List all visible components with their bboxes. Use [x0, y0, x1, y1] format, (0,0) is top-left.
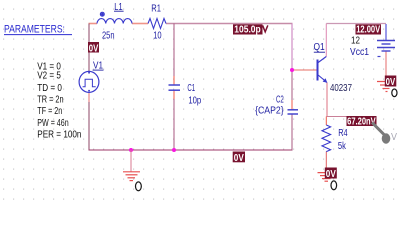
svg-text:TF = 2n: TF = 2n	[37, 105, 62, 116]
label V1	[93, 60, 104, 71]
wire emitter vertical	[326, 83, 328, 117]
svg-text:10p: 10p	[188, 95, 201, 106]
svg-text:TD = 0: TD = 0	[37, 82, 62, 93]
label 0 (R4 ground)	[331, 181, 337, 190]
pin R4 top	[325, 117, 327, 126]
wire collector vertical	[325, 24, 327, 57]
svg-text:40237: 40237	[330, 82, 352, 93]
ground 0 (right under battery)	[377, 82, 395, 92]
svg-text:{CAP2}: {CAP2}	[255, 105, 284, 116]
label Q1	[314, 41, 326, 52]
bias badge 105.0pV	[233, 24, 268, 35]
pin C2 top	[291, 100, 293, 110]
svg-text:TR = 2n: TR = 2n	[37, 93, 63, 104]
voltage probe marker	[372, 123, 398, 144]
svg-text:12.00V: 12.00V	[356, 24, 380, 35]
svg-text:C2: C2	[276, 94, 284, 105]
wire probe branch	[326, 116, 375, 118]
svg-text:R1: R1	[151, 2, 161, 13]
label 0 (center ground)	[136, 182, 142, 191]
wire bottom rail	[89, 149, 293, 151]
ground 0 (center)	[123, 150, 140, 181]
pin battery top	[385, 24, 387, 41]
wire Q1 base	[292, 69, 317, 71]
junction node at ground rail	[129, 148, 133, 152]
svg-text:25n: 25n	[102, 29, 115, 40]
wire top rail left (corner to L1)	[89, 23, 98, 25]
pin C1 top	[173, 76, 175, 85]
junction node at Q1 base	[290, 68, 294, 72]
svg-text:PW = 46n: PW = 46n	[37, 117, 68, 129]
svg-text:12: 12	[351, 35, 360, 46]
battery Vcc1	[377, 41, 395, 57]
wire L1 to R1	[132, 23, 148, 25]
svg-text:Q1: Q1	[314, 41, 325, 52]
svg-text:0V: 0V	[234, 152, 245, 163]
svg-text:5k: 5k	[338, 140, 346, 151]
resistor R1	[148, 19, 166, 29]
capacitor C1	[169, 85, 181, 90]
wire top rail right (Vcc)	[326, 23, 386, 25]
bias badge 0V (bottom rail)	[233, 152, 245, 163]
wire C1 branch upper	[173, 24, 175, 77]
voltage source V1	[79, 71, 99, 92]
svg-text:0V: 0V	[89, 42, 99, 53]
ground 0 (under R4)	[318, 173, 336, 182]
bias badge 0V (battery ground)	[385, 76, 397, 88]
label 0 (right ground)	[392, 89, 397, 97]
wire left vertical	[88, 24, 90, 72]
pin battery bottom / wire to ground	[385, 51, 387, 81]
svg-text:R4: R4	[338, 127, 347, 138]
bias badge 0V (V1 top)	[88, 42, 99, 54]
pin V1 bottom	[88, 92, 90, 102]
PARAMETERS: title	[4, 24, 72, 36]
pin R4 bottom / wire to ground	[325, 152, 327, 171]
svg-text:0V: 0V	[326, 168, 337, 179]
capacitor C2	[288, 110, 299, 114]
pin C2 bottom	[291, 114, 293, 150]
svg-text:67.20nV: 67.20nV	[347, 115, 376, 126]
parameter list	[37, 61, 81, 140]
svg-text:10: 10	[153, 29, 161, 40]
label L1	[114, 1, 124, 12]
svg-text:L1: L1	[114, 1, 122, 12]
svg-text:C1: C1	[187, 82, 195, 93]
junction node at C1 bottom	[172, 148, 176, 152]
bias badge 0V (R4 ground)	[325, 168, 337, 179]
svg-text:V1: V1	[93, 60, 103, 71]
svg-text:0V: 0V	[386, 76, 396, 87]
svg-text:V2 = 5: V2 = 5	[37, 70, 61, 81]
bias badge 67.20nV	[347, 115, 377, 126]
pin C1 bottom	[173, 90, 175, 99]
resistor R4	[322, 125, 331, 152]
inductor L1	[97, 12, 132, 23]
wire C1 branch lower	[173, 99, 175, 150]
wire right vertical middle	[291, 70, 293, 100]
bias badge 12.00V	[356, 24, 382, 35]
wire right vertical upper	[291, 24, 293, 71]
svg-text:Vcc1: Vcc1	[350, 46, 369, 57]
transistor Q1	[318, 57, 328, 83]
wire left vertical lower	[88, 102, 90, 150]
svg-text:105.0p: 105.0p	[234, 24, 261, 35]
svg-text:V: V	[391, 132, 398, 144]
wire R1 to right vertical	[166, 23, 293, 25]
svg-text:PER = 100n: PER = 100n	[37, 129, 81, 140]
